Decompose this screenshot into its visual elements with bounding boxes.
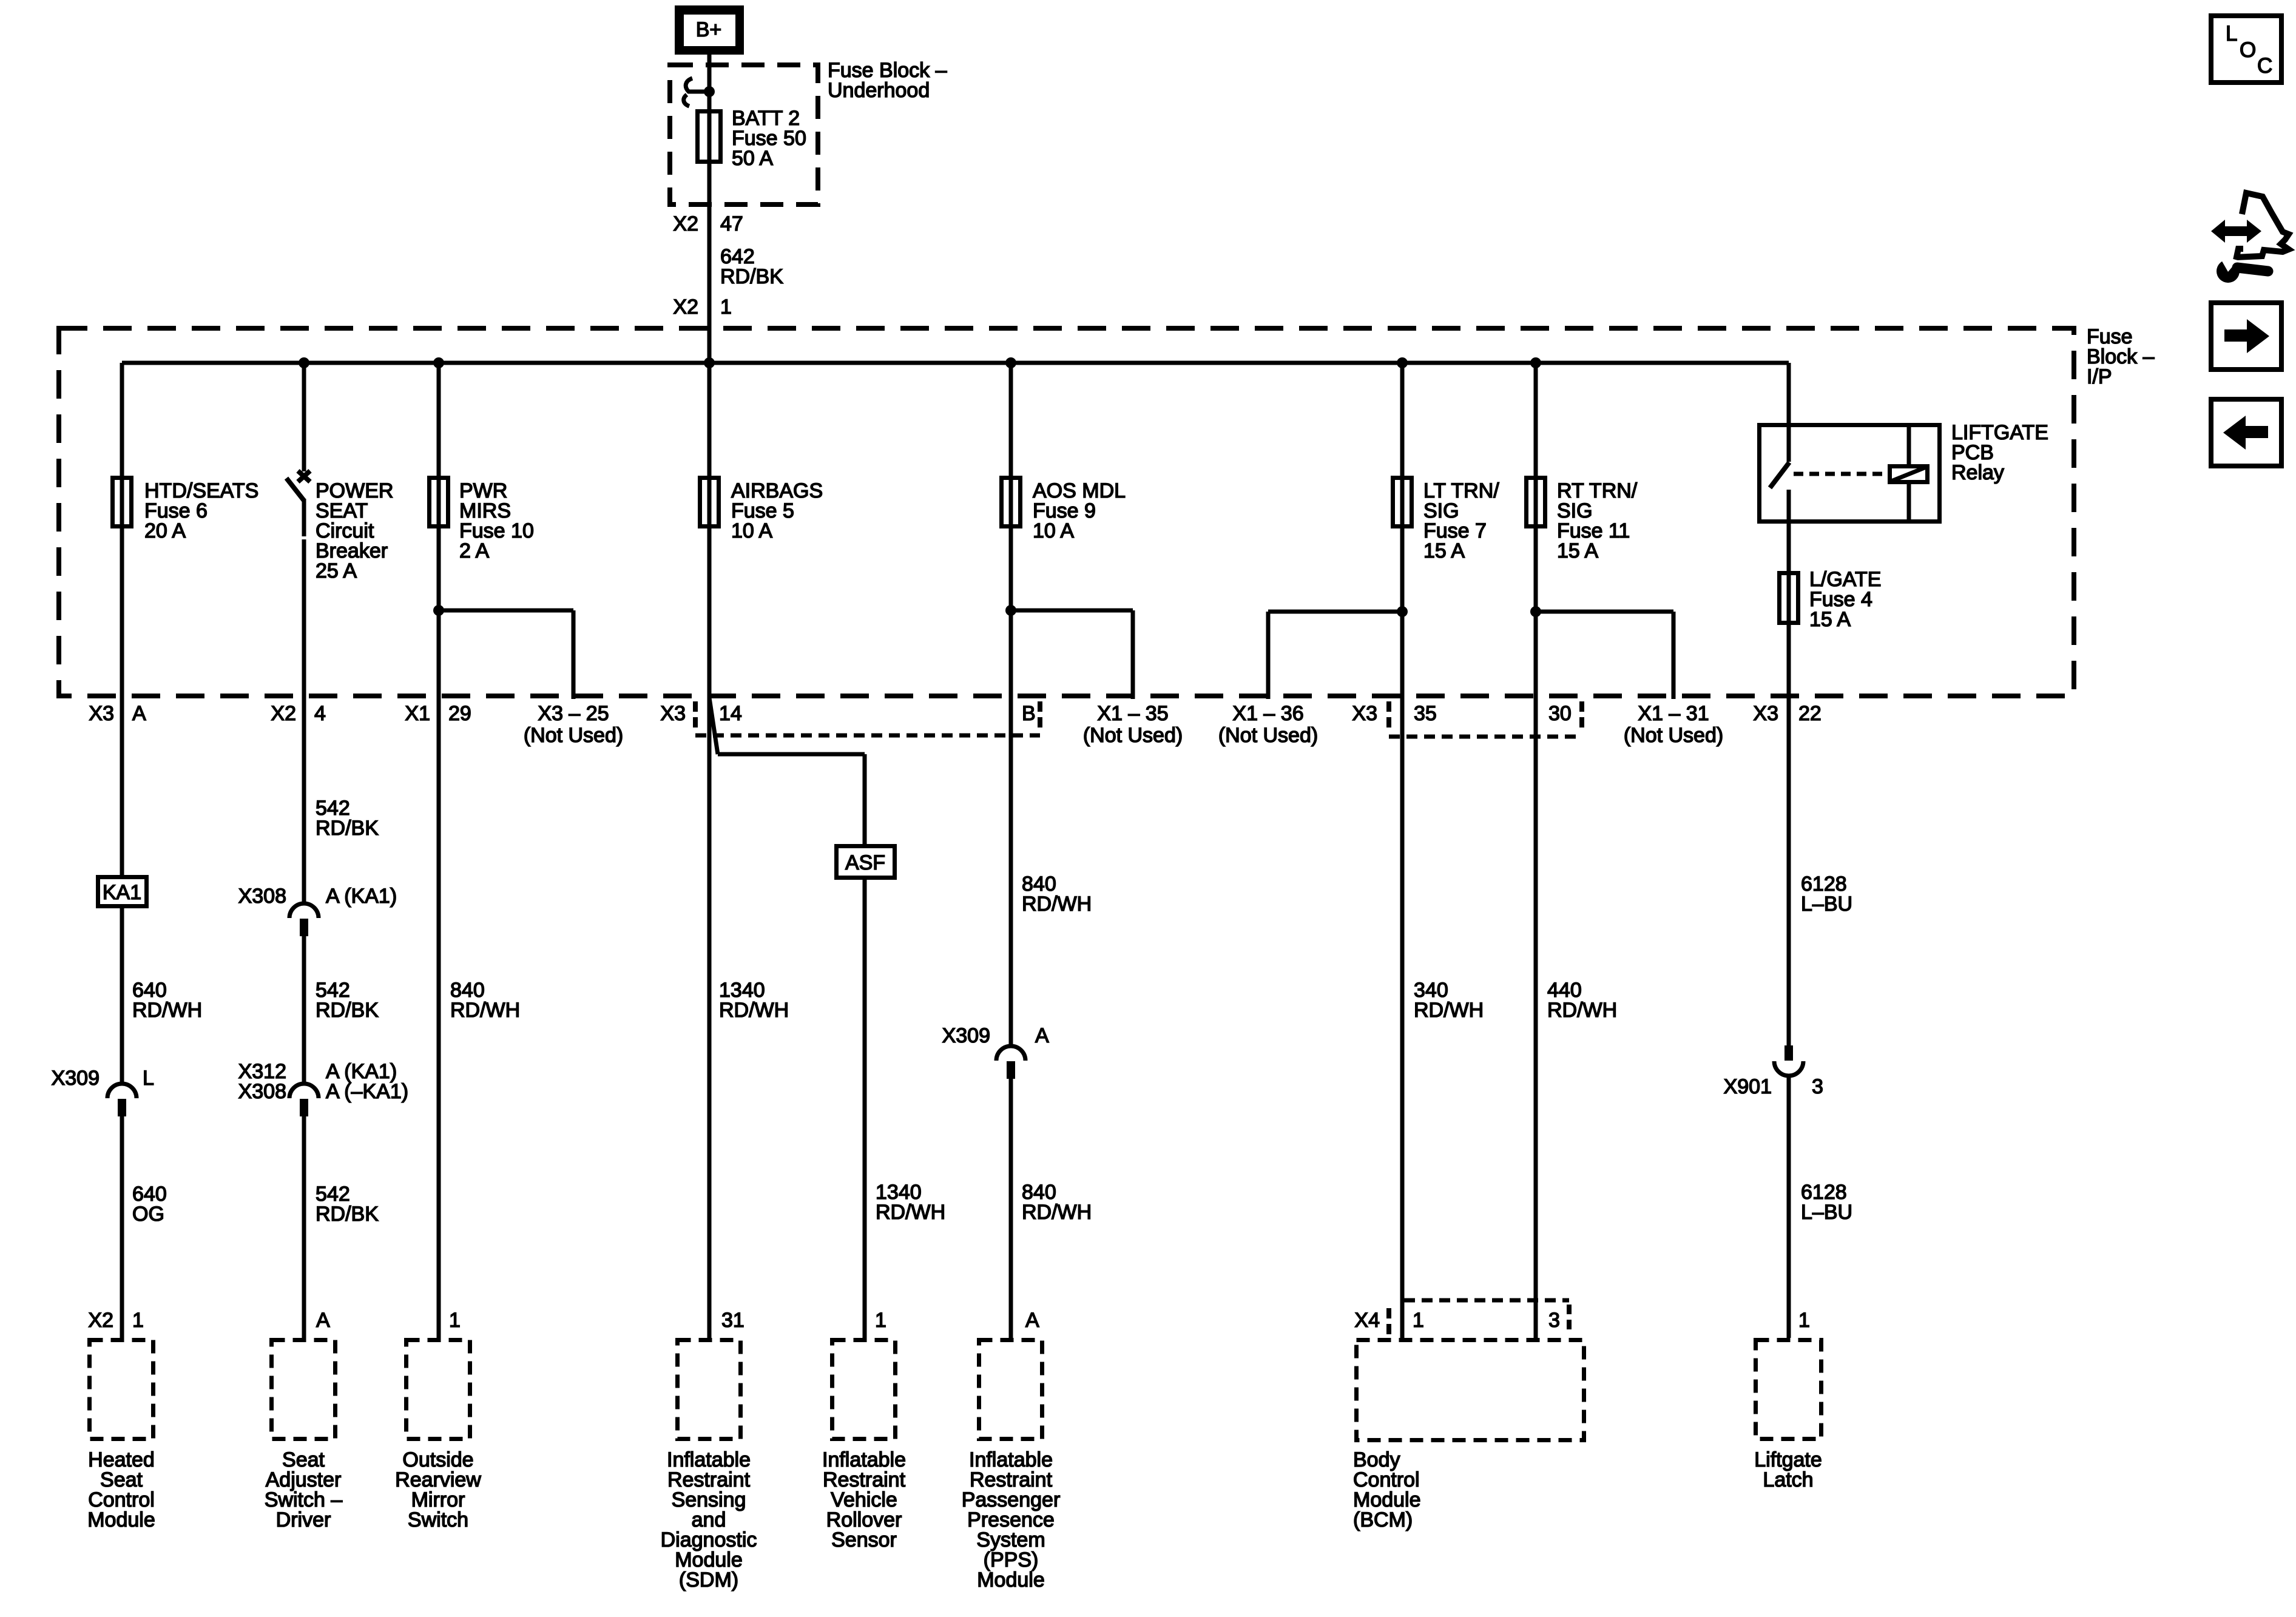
wire KA1 to X309	[120, 908, 124, 1085]
pin label X1-31 not used	[1624, 702, 1723, 747]
svg-text:1: 1	[720, 295, 732, 319]
svg-text:(SDM): (SDM)	[679, 1568, 738, 1592]
svg-text:(Not Used): (Not Used)	[1083, 724, 1183, 747]
svg-text:Switch: Switch	[408, 1508, 468, 1531]
svg-text:ASF: ASF	[845, 851, 885, 874]
fuse HTD/SEATS Fuse 6	[113, 478, 132, 527]
pin label X2 1	[673, 295, 732, 319]
svg-text:X3: X3	[660, 702, 686, 725]
svg-text:O: O	[2240, 38, 2256, 62]
wire X901 to liftgate latch	[1787, 1078, 1791, 1338]
wire L/GATE to X901	[1787, 696, 1791, 1047]
fuse RT TRN/SIG Fuse 11	[1527, 478, 1545, 527]
pin label X2 47	[673, 212, 743, 235]
svg-text:A: A	[132, 702, 146, 725]
wire AIRBAGS fuse	[707, 363, 712, 696]
component SDM	[661, 1340, 757, 1592]
relay actuation dashed link	[1794, 472, 1886, 476]
wire ASF to rollover sensor	[863, 880, 867, 1338]
junction LT TRN branch	[1397, 606, 1408, 617]
wire PWR MIRS fuse	[437, 363, 441, 696]
fuse BATT 2 label	[732, 107, 806, 170]
component rollover sensor	[822, 1340, 906, 1552]
pin label 1 mirror	[449, 1309, 461, 1332]
pin labels X4 1 3	[1354, 1309, 1560, 1332]
fuse AOS MDL Fuse 9	[1002, 478, 1021, 527]
svg-text:X901: X901	[1724, 1075, 1772, 1098]
svg-text:A (KA1): A (KA1)	[326, 885, 397, 908]
svg-text:Underhood: Underhood	[828, 79, 930, 102]
pin label X3-25 not used	[524, 702, 623, 747]
svg-text:X2: X2	[673, 212, 698, 235]
bus wire	[122, 361, 1789, 365]
fuse LT TRN/SIG Fuse 7	[1393, 478, 1412, 527]
wire X309 to heated seat module	[120, 1116, 124, 1338]
svg-text:15 A: 15 A	[1809, 608, 1851, 631]
svg-text:15 A: 15 A	[1423, 539, 1465, 562]
svg-text:RD/WH: RD/WH	[1022, 893, 1092, 916]
fuse HTD/SEATS label	[144, 479, 258, 542]
svg-text:RD/WH: RD/WH	[1414, 999, 1484, 1022]
svg-text:25 A: 25 A	[316, 559, 357, 582]
wire branch to X1-35	[1011, 609, 1135, 700]
circuit breaker label	[316, 479, 393, 582]
svg-text:50 A: 50 A	[732, 147, 773, 170]
svg-text:A: A	[1025, 1309, 1039, 1332]
wire relay to L/GATE fuse	[1787, 490, 1791, 696]
svg-text:3: 3	[1812, 1075, 1823, 1098]
svg-text:X309: X309	[52, 1067, 100, 1090]
inline connector X308	[289, 903, 319, 936]
svg-text:10 A: 10 A	[731, 519, 772, 542]
svg-text:X309: X309	[942, 1024, 990, 1047]
svg-text:B+: B+	[696, 18, 722, 41]
svg-text:14: 14	[719, 702, 742, 725]
wire label 1340 RD/WH sdm	[719, 979, 789, 1022]
wire branch to X1-36	[1266, 610, 1403, 700]
fuse block I/P box	[59, 328, 2074, 696]
inline connector X312 X308	[289, 1084, 319, 1116]
component heated seat control module	[87, 1340, 155, 1532]
icon adjustable component	[2211, 193, 2289, 283]
svg-text:B: B	[1022, 702, 1036, 725]
wire label 640 OG	[132, 1183, 167, 1226]
relay switch contact	[1770, 462, 1789, 488]
svg-text:RD/BK: RD/BK	[316, 1203, 379, 1226]
junction AOS branch	[1005, 605, 1016, 616]
wire AOS to X309 PPS	[1009, 696, 1013, 1048]
wire branch to X1-31	[1536, 610, 1676, 700]
svg-text:Module: Module	[977, 1568, 1045, 1592]
svg-text:RD/BK: RD/BK	[316, 999, 379, 1022]
svg-text:X2: X2	[88, 1309, 113, 1332]
fuse block I/P label	[2087, 325, 2155, 388]
inline connector X309 L	[107, 1084, 137, 1116]
inline connector X901 3	[1774, 1045, 1803, 1076]
pin label 30	[1548, 702, 1572, 725]
svg-text:RD/WH: RD/WH	[1547, 999, 1617, 1022]
wire label 840 RD/WH mirror	[450, 979, 520, 1022]
connector bracket X4 BCM	[1389, 1300, 1569, 1338]
relay coil wires	[1907, 425, 1911, 521]
callout KA1	[98, 877, 147, 906]
fuse PWR MIRS Fuse 10	[430, 478, 448, 527]
bus junction 5	[1397, 357, 1408, 368]
icon arrow next	[2211, 303, 2281, 370]
fuse BATT 2 Fuse 50	[698, 112, 721, 162]
wire LT TRN to BCM	[1400, 696, 1405, 1338]
wire inside underhood box	[707, 67, 712, 165]
junction J0	[704, 86, 715, 97]
fusible element symbol	[684, 78, 709, 106]
power terminal B+	[675, 5, 744, 55]
wire label 542 RD/BK a	[316, 797, 379, 840]
pin label 31 SDM	[721, 1309, 745, 1332]
svg-text:Driver: Driver	[276, 1508, 331, 1531]
svg-text:X308: X308	[238, 1080, 286, 1103]
svg-text:Latch: Latch	[1763, 1468, 1813, 1491]
relay label	[1951, 421, 2048, 484]
pin label X3 14	[660, 702, 741, 725]
relay coil	[1890, 467, 1928, 482]
wire label 640 RD/WH	[132, 979, 202, 1022]
pin label X3 A	[89, 702, 146, 725]
svg-text:1: 1	[449, 1309, 461, 1332]
pin label X2 1 heated seat	[88, 1309, 144, 1332]
svg-text:X2: X2	[271, 702, 296, 725]
svg-text:X3: X3	[89, 702, 114, 725]
svg-text:30: 30	[1548, 702, 1572, 725]
svg-text:RD/WH: RD/WH	[1022, 1201, 1092, 1224]
svg-text:RD/WH: RD/WH	[719, 999, 789, 1022]
bus junction 1	[299, 357, 309, 368]
component BCM	[1353, 1340, 1584, 1532]
inline connector X309 A pps	[996, 1046, 1025, 1079]
svg-text:2 A: 2 A	[459, 539, 489, 562]
wire jog to ASF branch	[709, 698, 718, 754]
wire branch to ASF	[718, 752, 867, 845]
wire branch to X3-25	[439, 609, 576, 700]
svg-text:(Not Used): (Not Used)	[1218, 724, 1318, 747]
svg-text:X308: X308	[238, 885, 286, 908]
fuse AIRBAGS label	[731, 479, 823, 542]
wire label 542 RD/BK c	[316, 1183, 379, 1226]
svg-text:47: 47	[720, 212, 743, 235]
wire AOS MDL fuse	[1009, 363, 1013, 696]
pin label 1 rollover	[875, 1309, 886, 1332]
fuse block underhood label	[828, 59, 947, 102]
svg-text:A: A	[316, 1309, 330, 1332]
svg-text:X1 – 35: X1 – 35	[1097, 702, 1168, 725]
svg-text:RD/WH: RD/WH	[450, 999, 520, 1022]
svg-text:L: L	[143, 1067, 154, 1090]
fuse RT TRN/SIG label	[1557, 479, 1638, 562]
wire to KA1	[120, 696, 124, 875]
wire B+ to Fuse Block Underhood	[707, 52, 712, 67]
svg-text:RD/BK: RD/BK	[316, 817, 379, 840]
svg-text:A (–KA1): A (–KA1)	[326, 1080, 408, 1103]
svg-text:OG: OG	[132, 1203, 164, 1226]
wire AIRBAGS to SDM	[707, 696, 712, 1338]
fuse AOS MDL label	[1033, 479, 1126, 542]
bus junction 4	[1005, 357, 1016, 368]
svg-text:L–BU: L–BU	[1801, 1201, 1852, 1224]
svg-text:RD/WH: RD/WH	[876, 1201, 945, 1224]
wire RT TRN fuse	[1534, 363, 1538, 696]
component seat adjuster switch driver	[265, 1340, 343, 1532]
pin label X1-36 not used	[1218, 702, 1318, 747]
wire X312 to seat adjuster switch	[302, 1116, 306, 1338]
svg-text:C: C	[2257, 54, 2272, 78]
pin label B	[1022, 702, 1036, 725]
svg-text:X3: X3	[1352, 702, 1377, 725]
icon LOC box	[2211, 16, 2281, 83]
wire label 642 RD/BK	[720, 245, 783, 288]
connector bracket X3 14-B	[695, 701, 1040, 735]
wire LT TRN fuse	[1400, 363, 1405, 696]
callout ASF	[837, 846, 895, 878]
relay LIFTGATE PCB box	[1760, 425, 1940, 522]
fuse AIRBAGS Fuse 5	[700, 478, 719, 527]
wire X309 to PPS module	[1009, 1078, 1013, 1338]
svg-text:1: 1	[875, 1309, 886, 1332]
fuse L/GATE Fuse 4	[1780, 573, 1798, 623]
svg-text:X1 – 31: X1 – 31	[1638, 702, 1709, 725]
bus junction 3	[704, 357, 715, 368]
connector label X312 X308	[238, 1060, 408, 1103]
icon arrow back	[2211, 399, 2281, 466]
svg-text:4: 4	[314, 702, 326, 725]
wire label 340 RD/WH	[1414, 979, 1484, 1022]
svg-text:Sensor: Sensor	[831, 1528, 897, 1551]
svg-text:(Not Used): (Not Used)	[524, 724, 623, 747]
connector label X308 A	[238, 885, 397, 908]
component liftgate latch	[1754, 1340, 1822, 1492]
pin label X3 35	[1352, 702, 1436, 725]
svg-text:15 A: 15 A	[1557, 539, 1598, 562]
svg-text:I/P: I/P	[2087, 365, 2112, 388]
connector bracket X3 35-30	[1389, 701, 1582, 737]
circuit breaker POWER SEAT	[286, 471, 310, 501]
svg-text:RD/WH: RD/WH	[132, 999, 202, 1022]
svg-text:22: 22	[1798, 702, 1822, 725]
svg-text:1: 1	[132, 1309, 144, 1332]
svg-text:1: 1	[1798, 1309, 1810, 1332]
svg-text:20 A: 20 A	[144, 519, 186, 542]
junction PWR MIRS branch	[433, 605, 444, 616]
svg-text:Module: Module	[87, 1508, 155, 1531]
fuse L/GATE label	[1809, 568, 1881, 631]
svg-text:X4: X4	[1354, 1309, 1380, 1332]
wire below breaker	[302, 499, 306, 696]
fuse LT TRN/SIG label	[1423, 479, 1499, 562]
wire label 840 RD/WH pps a	[1022, 873, 1092, 916]
wire label 542 RD/BK b	[316, 979, 379, 1022]
wire 642 RD/BK	[707, 215, 712, 299]
connector label X309 L	[52, 1067, 154, 1090]
wire label 6128 L-BU b	[1801, 1181, 1852, 1224]
wire label 1340 RD/WH rollover	[876, 1181, 945, 1224]
svg-text:RD/BK: RD/BK	[720, 265, 783, 288]
fuse PWR MIRS label	[459, 479, 534, 562]
svg-text:Relay: Relay	[1951, 461, 2004, 484]
wire label 840 RD/WH pps b	[1022, 1181, 1092, 1224]
fuse block underhood box	[670, 65, 818, 204]
svg-text:31: 31	[721, 1309, 745, 1332]
component PPS module	[962, 1340, 1061, 1592]
component outside rearview mirror switch	[395, 1340, 481, 1532]
svg-text:35: 35	[1414, 702, 1437, 725]
pin label X2 4	[271, 702, 326, 725]
wire HTD/SEATS fuse	[120, 363, 124, 696]
svg-text:1: 1	[1413, 1309, 1424, 1332]
pin label X3 22	[1753, 702, 1821, 725]
pin label X1-35 not used	[1083, 702, 1183, 747]
pin label A pps	[1025, 1309, 1039, 1332]
wire to circuit breaker	[302, 363, 306, 471]
wire label 6128 L-BU a	[1801, 873, 1852, 916]
svg-text:X2: X2	[673, 295, 698, 319]
svg-text:X1 – 36: X1 – 36	[1232, 702, 1303, 725]
connector label X309 A pps	[942, 1024, 1049, 1047]
svg-text:(BCM): (BCM)	[1353, 1508, 1413, 1531]
pin label A seat adjuster	[316, 1309, 330, 1332]
wire breaker to X308	[302, 696, 306, 904]
wire PWR MIRS to mirror switch	[437, 696, 441, 1338]
wire X308 to X312	[302, 936, 306, 1084]
svg-text:X1: X1	[405, 702, 430, 725]
svg-text:L: L	[2226, 22, 2237, 46]
wire label 440 RD/WH	[1547, 979, 1617, 1022]
pin label X1 29	[405, 702, 471, 725]
wire fuse to X2-47	[707, 164, 712, 215]
wire to I/P block	[707, 299, 712, 363]
wire bus to relay	[1787, 363, 1791, 462]
junction RT TRN branch	[1530, 606, 1541, 617]
svg-text:A: A	[1035, 1024, 1049, 1047]
svg-text:KA1: KA1	[103, 881, 141, 904]
svg-text:3: 3	[1548, 1309, 1560, 1332]
bus junction 2	[433, 357, 444, 368]
svg-text:(Not Used): (Not Used)	[1624, 724, 1723, 747]
svg-text:L–BU: L–BU	[1801, 893, 1852, 916]
svg-text:X3 – 25: X3 – 25	[538, 702, 609, 725]
svg-text:10 A: 10 A	[1033, 519, 1074, 542]
connector label X901 3	[1724, 1075, 1823, 1098]
bus junction 6	[1530, 357, 1541, 368]
svg-text:29: 29	[448, 702, 471, 725]
pin label 1 liftgate	[1798, 1309, 1810, 1332]
svg-text:X3: X3	[1753, 702, 1778, 725]
wire RT TRN to BCM	[1534, 696, 1538, 1338]
